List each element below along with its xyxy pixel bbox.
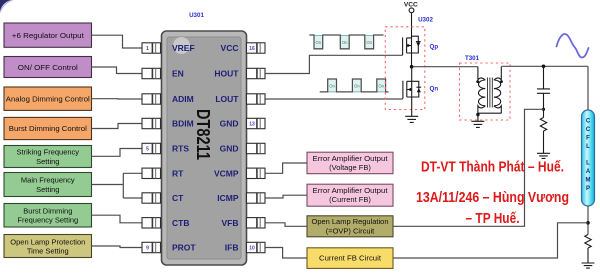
svg-text:On: On xyxy=(378,83,384,88)
svg-text:Qp: Qp xyxy=(430,44,439,51)
svg-text:PROT: PROT xyxy=(172,243,196,253)
svg-text:13: 13 xyxy=(249,122,255,128)
svg-text:RTS: RTS xyxy=(172,144,189,154)
svg-text:EN: EN xyxy=(172,69,184,79)
pin 8 (CTB) xyxy=(142,218,161,228)
wire: box to pin 1 VREF xyxy=(92,35,143,48)
svg-text:+6 Regulator Output: +6 Regulator Output xyxy=(12,31,85,40)
red dashed box around transformer T301 xyxy=(460,63,511,120)
pin 14 (LOUT) xyxy=(247,94,266,104)
node: transformer return junction xyxy=(476,113,479,116)
function box: Striking Frequency Setting xyxy=(4,146,92,168)
svg-text:P: P xyxy=(586,186,590,192)
svg-text:ADIM: ADIM xyxy=(172,94,194,104)
transistor Qp (P-MOSFET) xyxy=(403,36,421,67)
svg-text:A: A xyxy=(586,169,591,175)
VCC power terminal xyxy=(404,1,418,36)
right pin labels xyxy=(214,43,239,253)
svg-text:DT-VT Thành Phát – Huế.: DT-VT Thành Phát – Huế. xyxy=(421,159,564,175)
wire: Current FB box to sense junction xyxy=(393,223,588,258)
transistor Qn (N-MOSFET) xyxy=(403,67,421,104)
ground below current sense resistor xyxy=(582,263,595,268)
svg-text:Setting: Setting xyxy=(36,157,59,166)
svg-text:HOUT: HOUT xyxy=(214,69,239,79)
svg-text:Setting: Setting xyxy=(36,185,59,194)
svg-text:Main Frequency: Main Frequency xyxy=(21,176,75,185)
pin 9 (PROT) xyxy=(142,242,161,252)
svg-text:GND: GND xyxy=(220,144,239,154)
node: current sense junction xyxy=(586,221,590,225)
wire: box to pin 9 PROT xyxy=(92,246,143,248)
capacitor (ballast) xyxy=(537,66,550,109)
svg-text:Frequency Setting: Frequency Setting xyxy=(17,216,78,225)
pin 7 (CT) xyxy=(142,193,161,203)
wire: HOUT to Qp gate xyxy=(265,55,403,73)
function box: Analog Dimming Control xyxy=(4,87,92,110)
ground below transformer xyxy=(471,115,484,128)
svg-text:VCC: VCC xyxy=(404,1,418,8)
svg-text:Burst Dimming: Burst Dimming xyxy=(23,206,72,215)
svg-text:Error Amplifier Output: Error Amplifier Output xyxy=(313,186,389,195)
sine wave symbol xyxy=(557,34,589,57)
svg-text:LOUT: LOUT xyxy=(215,94,239,104)
function box: Open Lamp Protection Time Setting xyxy=(4,235,92,258)
svg-text:VCMP: VCMP xyxy=(214,168,239,178)
svg-text:VCC: VCC xyxy=(221,43,239,53)
svg-text:(Voltage FB): (Voltage FB) xyxy=(329,163,371,172)
svg-text:ON/ OFF Control: ON/ OFF Control xyxy=(18,63,78,72)
svg-text:On: On xyxy=(329,83,335,88)
resistor (OVP divider) xyxy=(540,109,546,153)
svg-text:(=OVP) Circuit: (=OVP) Circuit xyxy=(326,226,375,235)
wire: box to pin 8 CTB xyxy=(92,215,143,223)
function box: +6 Regulator Output xyxy=(4,23,92,47)
wire: switch node to transformer primary xyxy=(413,66,478,68)
function box: Main Frequency Setting xyxy=(4,173,92,197)
svg-text:16: 16 xyxy=(249,46,255,52)
svg-text:GND: GND xyxy=(220,119,239,129)
pin 16 (VCC) xyxy=(247,43,266,53)
svg-text:Burst Dimming Control: Burst Dimming Control xyxy=(9,124,87,133)
svg-text:On: On xyxy=(366,40,372,45)
svg-text:C: C xyxy=(586,118,591,124)
wire: VCMP to box xyxy=(265,163,307,173)
wire: box to pin 2 EN xyxy=(92,67,143,74)
svg-text:On: On xyxy=(316,40,322,45)
svg-text:L: L xyxy=(586,160,590,166)
svg-text:U302: U302 xyxy=(418,17,433,24)
svg-text:(Current FB): (Current FB) xyxy=(329,195,371,204)
svg-text:VREF: VREF xyxy=(172,43,195,53)
pin 4 (BDIM) xyxy=(142,118,161,128)
function box: Burst Dimming Frequency Setting xyxy=(4,204,92,228)
svg-text:RT: RT xyxy=(172,168,184,178)
pin 13 (GND) xyxy=(247,118,266,128)
pin 6 (RT) xyxy=(142,168,161,178)
LOUT gate drive waveform xyxy=(320,79,389,92)
svg-text:Current FB Circuit: Current FB Circuit xyxy=(319,254,382,263)
svg-text:9: 9 xyxy=(146,246,149,252)
svg-text:Open Lamp Protection: Open Lamp Protection xyxy=(10,237,85,246)
svg-text:L: L xyxy=(586,144,590,150)
pin 1 (VREF) xyxy=(142,43,161,53)
annotation box: Open Lamp Regulation (=OVP) Circuit xyxy=(307,216,393,237)
svg-text:DT8211: DT8211 xyxy=(193,109,213,160)
pin 10 (IFB) xyxy=(247,242,266,252)
svg-text:On: On xyxy=(354,83,360,88)
svg-text:– TP Huế.: – TP Huế. xyxy=(466,211,520,227)
wire: box to pin 4 BDIM xyxy=(92,124,143,129)
svg-text:On: On xyxy=(342,40,348,45)
node: OVP sense junction xyxy=(542,108,545,111)
pin (ICMP) xyxy=(247,193,266,203)
annotation box: Error Amplifier Output (Current FB) xyxy=(307,184,393,206)
wire: OVP box to capacitor divider xyxy=(393,109,544,226)
annotation box: Current FB Circuit xyxy=(307,248,393,269)
wire: LOUT to Qn gate xyxy=(265,98,403,100)
svg-text:5: 5 xyxy=(146,147,149,153)
HOUT gate drive waveform xyxy=(309,35,383,49)
svg-text:13A/11/246 – Hùng Vương: 13A/11/246 – Hùng Vương xyxy=(416,190,569,206)
ground below Qn xyxy=(405,104,418,123)
svg-text:U301: U301 xyxy=(189,12,204,19)
wire: box to pin 5 RTS xyxy=(92,149,143,157)
pin 5 (RTS) xyxy=(142,143,161,153)
svg-text:10: 10 xyxy=(249,246,255,252)
svg-text:Striking Frequency: Striking Frequency xyxy=(17,148,80,157)
CCFL lamp xyxy=(582,66,595,206)
wire: ICMP to box xyxy=(265,195,307,198)
pin 12 (GND) xyxy=(247,143,266,153)
function box: ON/OFF Control xyxy=(4,57,92,78)
wire: IFB to box xyxy=(265,248,307,259)
function box: Burst Dimming Control xyxy=(4,117,92,139)
svg-text:C: C xyxy=(586,127,591,133)
red dashed box around U302 half-bridge xyxy=(385,27,425,110)
wire: box to pins RT and CT xyxy=(92,173,143,198)
svg-text:CT: CT xyxy=(172,193,184,203)
annotation box: Error Amplifier Output (Voltage FB) xyxy=(307,152,393,174)
svg-text:Error Amplifier Output: Error Amplifier Output xyxy=(313,154,389,163)
node: half-bridge switch node junction xyxy=(410,65,414,69)
pin 2 (EN) xyxy=(142,68,161,78)
svg-text:ICMP: ICMP xyxy=(217,193,239,203)
wire: box to pin 3 ADIM xyxy=(92,98,143,100)
wire: lamp return xyxy=(587,206,589,235)
ground below OVP divider xyxy=(537,153,550,158)
svg-text:Analog Dimming Control: Analog Dimming Control xyxy=(6,94,90,103)
wire: VFB to box xyxy=(265,223,307,227)
svg-text:VFB: VFB xyxy=(222,218,239,228)
svg-text:M: M xyxy=(586,177,591,183)
pin 15 (HOUT) xyxy=(247,68,266,78)
svg-text:F: F xyxy=(586,135,590,141)
pin 3 (ADIM) xyxy=(142,94,161,104)
left pin labels xyxy=(172,43,196,253)
pin (VFB) xyxy=(247,218,266,228)
svg-text:1: 1 xyxy=(146,46,149,52)
svg-text:BDIM: BDIM xyxy=(172,119,194,129)
svg-text:Qn: Qn xyxy=(430,86,439,93)
node: ballast capacitor junction xyxy=(542,65,546,69)
svg-text:Time Setting: Time Setting xyxy=(27,247,69,256)
svg-text:IFB: IFB xyxy=(225,243,239,253)
resistor (current sense) xyxy=(585,235,591,263)
svg-text:T301: T301 xyxy=(465,55,480,62)
svg-text:Open Lamp Regulation: Open Lamp Regulation xyxy=(312,217,389,226)
transformer T301 xyxy=(476,67,503,114)
pin (VCMP) xyxy=(247,168,266,178)
svg-text:CTB: CTB xyxy=(172,218,189,228)
wire: transformer secondary to lamp xyxy=(501,65,588,67)
IC U301 body xyxy=(162,31,247,265)
